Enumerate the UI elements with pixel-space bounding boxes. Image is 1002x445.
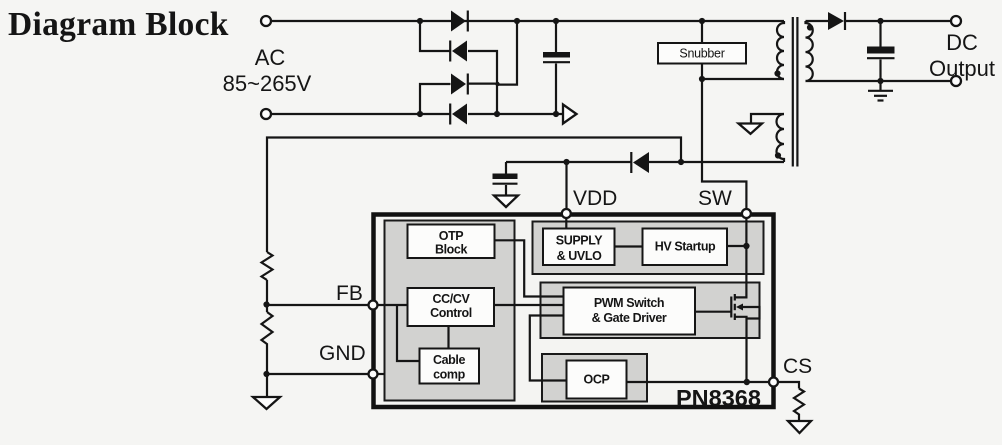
node junction D3 cathode to top rail (514, 18, 520, 24)
block HV Startup (643, 229, 728, 266)
capacitor C3 output (867, 21, 895, 81)
block OCP (567, 361, 627, 399)
ground primary open-triangle at CS (788, 421, 811, 433)
node junction FB divider tap (678, 159, 684, 165)
block OTP (408, 225, 495, 259)
svg-text:PWM Switch: PWM Switch (594, 296, 664, 310)
node junction FB (263, 301, 269, 307)
node junction MOSFET source / CS (744, 379, 750, 385)
resistor R1 upper divider (262, 252, 273, 280)
svg-text:Snubber: Snubber (679, 47, 724, 61)
svg-text:OTP: OTP (439, 229, 464, 243)
svg-text:comp: comp (433, 368, 466, 382)
IC U1 PN8368 outline (374, 215, 774, 408)
ground primary open-triangle at VDD cap (494, 196, 518, 208)
node junction GND (263, 371, 269, 377)
wire OCP to CS pin (627, 381, 769, 383)
diode D5 VDD rectifier (631, 152, 649, 173)
pin FB (369, 301, 378, 310)
node junction HV startup on SW net (743, 243, 749, 249)
terminal DC+ (951, 16, 961, 26)
svg-text:CS: CS (783, 355, 812, 378)
wire CS pin to sense resistor (778, 382, 799, 389)
capacitor C1 bulk filter (543, 21, 570, 114)
terminal AC line 2 (261, 109, 271, 119)
pin CS (769, 378, 778, 387)
wire secondary top lead (806, 20, 829, 22)
diode D3 bridge third (451, 74, 468, 95)
wire AC1 down to D2 cathode (420, 21, 450, 51)
IC U1 top supply panel (533, 222, 764, 275)
pin GND (369, 370, 378, 379)
svg-text:Block: Block (435, 243, 467, 257)
transformer T1 primary winding (777, 21, 784, 79)
svg-text:SUPPLY: SUPPLY (556, 234, 604, 248)
svg-text:& UVLO: & UVLO (557, 249, 603, 263)
node junction top rail left (417, 18, 423, 24)
wire OTP to PWM (495, 240, 564, 296)
IC U1 middle PWM panel (541, 283, 760, 339)
wire GND pin stub (377, 373, 385, 375)
block PWM Switch & Gate Driver (564, 288, 696, 335)
svg-text:Control: Control (430, 306, 472, 320)
node phase dot primary (774, 70, 780, 76)
svg-text:CC/CV: CC/CV (433, 292, 471, 306)
wire DC+ output (845, 20, 952, 22)
transformer T1 auxiliary winding (777, 114, 784, 162)
wire GND node to GND pin (267, 373, 368, 375)
node junction AC2 bridge (417, 111, 423, 117)
node phase dot secondary (807, 24, 813, 30)
diode D4 bridge bottom (450, 104, 467, 125)
wire VDD pin to SUPPLY (565, 217, 567, 229)
svg-text:OCP: OCP (584, 373, 610, 387)
wire auxiliary bottom lead to VDD diode (648, 161, 784, 163)
svg-text:AC: AC (255, 45, 286, 70)
node junction C1 bottom (553, 111, 559, 117)
wire primary winding bottom lead (702, 78, 784, 80)
wire secondary bottom lead / DC- output (806, 80, 952, 82)
IC U1 left analog panel (385, 221, 515, 401)
diode D6 output rectifier (828, 12, 845, 30)
wire D2 anode to DC- rail (468, 51, 497, 114)
resistor R3 current sense (794, 389, 804, 421)
node phase dot auxiliary (775, 152, 781, 158)
ground primary open-triangle divider (253, 397, 280, 409)
node DC Output labels (929, 30, 995, 81)
svg-text:SW: SW (698, 187, 732, 210)
capacitor C2 VDD (493, 162, 518, 195)
wire FB node to FB pin (267, 304, 368, 306)
resistor R2 lower divider (262, 312, 273, 347)
svg-text:& Gate Driver: & Gate Driver (592, 311, 667, 325)
node junction VDD (563, 159, 569, 165)
ground primary open-triangle at auxiliary winding (739, 114, 785, 134)
svg-text:Output: Output (929, 56, 995, 81)
wire AC line 2 to bridge (271, 113, 451, 115)
block SUPPLY & UVLO (543, 229, 615, 266)
svg-text:GND: GND (319, 342, 366, 365)
wire D3 cathode up to DC+ rail (468, 21, 517, 85)
diode D2 bridge second (450, 41, 467, 62)
svg-text:Diagram Block: Diagram Block (8, 6, 229, 43)
block CC/CV Control (408, 288, 495, 326)
transformer T1 core (793, 17, 798, 167)
IC U1 OCP panel (542, 354, 647, 402)
wire FB pin to CC/CV and Cable comp (377, 305, 420, 361)
snubber box (658, 43, 746, 64)
terminal DC- (951, 76, 961, 86)
wire R1 to FB node (266, 280, 268, 312)
ground earth DC output (868, 81, 893, 101)
wire CC/CV to Cable comp (447, 326, 449, 349)
svg-text:FB: FB (336, 282, 363, 305)
wire AC line 1 to bridge and DC+ rail (271, 20, 784, 22)
node AC input labels (223, 45, 312, 96)
pin VDD (562, 209, 571, 218)
node junction snubber top (699, 18, 705, 24)
transformer T1 secondary winding (806, 21, 813, 81)
ground primary open-triangle after bridge (563, 105, 577, 124)
wire SUPPLY to HV Startup (615, 245, 643, 247)
svg-text:HV Startup: HV Startup (655, 240, 716, 254)
node junction output cap bottom (877, 78, 883, 84)
svg-text:VDD: VDD (573, 187, 617, 210)
svg-text:PN8368: PN8368 (676, 385, 761, 411)
wire R2 to GND node (266, 347, 268, 396)
svg-text:Cable: Cable (433, 353, 465, 367)
svg-text:85~265V: 85~265V (223, 71, 312, 96)
wire AC2 up to D3 anode (420, 84, 451, 114)
node junction output cap top (877, 18, 883, 24)
wire SW net vertical to MOSFET drain (735, 214, 747, 297)
node junction snubber bottom / primary winding (699, 76, 705, 82)
wire VDD rail (506, 162, 631, 208)
wire snubber vertical to SW (702, 21, 746, 208)
block Cable comp (420, 349, 480, 384)
pin SW (742, 209, 751, 218)
node junction C1 top (553, 18, 559, 24)
wire CC/CV to PWM (494, 304, 564, 306)
node junction D2-D4 anodes (494, 111, 500, 117)
node crossover blob (495, 82, 499, 86)
terminal AC line 1 (261, 16, 271, 26)
wire FB divider feed from aux winding (267, 138, 681, 253)
wire HV Startup to SW net (727, 245, 746, 247)
svg-text:DC: DC (946, 30, 978, 55)
wire PWM to OCP link (530, 316, 567, 381)
wire DC- rail bottom (468, 113, 563, 115)
diode D1 bridge top (451, 11, 468, 32)
transistor Q1 power MOSFET (696, 294, 760, 382)
